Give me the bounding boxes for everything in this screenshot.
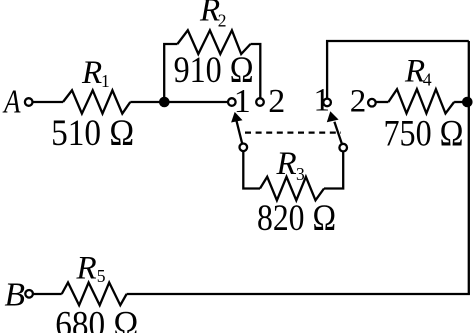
contact 2 right open circle [368, 99, 376, 107]
switch pole S2 arrowhead [327, 111, 339, 122]
svg-text:R: R [276, 146, 297, 182]
switch pole S1 arrowhead [231, 112, 242, 123]
svg-text:680 Ω: 680 Ω [55, 305, 138, 333]
junction dot at node after R1 [159, 97, 170, 108]
svg-text:R: R [81, 55, 102, 91]
switch pole S2 pivot circle [339, 144, 347, 152]
wire R4 to right rail [454, 101, 469, 103]
contact 1 right open circle [323, 99, 331, 107]
wire B to R5 [33, 293, 62, 295]
resistor R5 [62, 283, 127, 306]
wire contact 2 right to R4 [376, 101, 388, 103]
svg-text:3: 3 [296, 164, 305, 184]
wire junction up to R2 [164, 44, 177, 102]
svg-text:1: 1 [101, 71, 110, 91]
svg-text:4: 4 [423, 70, 432, 90]
terminal A open circle [25, 98, 33, 106]
terminal B open circle [25, 290, 33, 298]
svg-text:R: R [76, 250, 97, 286]
switch pole S1 pivot circle [240, 144, 248, 152]
resistor R1 [63, 90, 130, 113]
wire R1 to contact 1 left [130, 101, 228, 103]
svg-text:A: A [2, 83, 20, 120]
contact 1 left open circle [228, 98, 236, 106]
contact 2 left open circle [256, 98, 264, 106]
wire contact 1 right up and across top to right rail [327, 41, 469, 98]
svg-text:B: B [5, 277, 26, 314]
svg-text:510 Ω: 510 Ω [51, 113, 134, 154]
switch gang dashed link [245, 132, 341, 134]
resistor R3 [260, 177, 324, 201]
svg-text:5: 5 [97, 266, 106, 286]
wire A to R1 [33, 101, 63, 103]
wire R3 up to S2 pivot [324, 152, 343, 189]
junction dot R4 right rail [462, 97, 473, 108]
svg-text:750 Ω: 750 Ω [384, 113, 464, 154]
switch pole S2 arm [334, 122, 342, 144]
svg-text:2: 2 [350, 84, 367, 120]
resistor R2 [177, 30, 250, 54]
right rail vertical wire [468, 41, 470, 294]
svg-text:2: 2 [218, 10, 227, 30]
switch pole S1 arm [237, 121, 243, 144]
svg-text:820 Ω: 820 Ω [257, 198, 336, 239]
wire R2 down to contact 2 left [251, 44, 261, 98]
wire S1 pivot down to R3 [243, 151, 260, 189]
svg-text:2: 2 [268, 83, 285, 120]
resistor R4 [388, 89, 454, 113]
wire R5 to right rail bottom [127, 293, 470, 295]
